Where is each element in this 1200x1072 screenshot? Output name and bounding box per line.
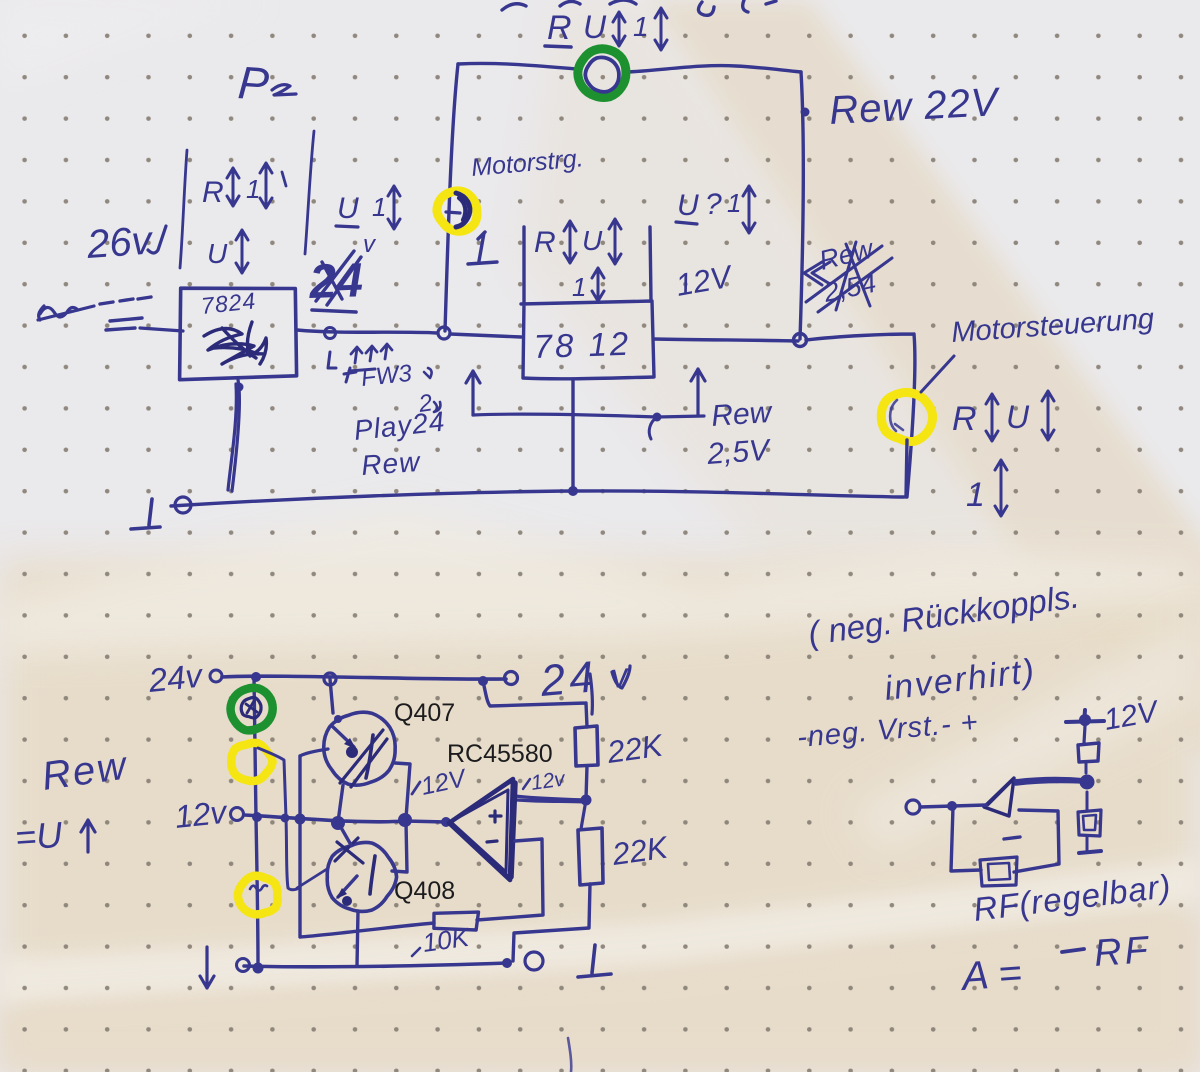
wire: left vertical 24v to 12v rail — [254, 677, 256, 818]
wire: rail down to 10K — [300, 756, 434, 937]
ground symbol below yellow circle — [468, 232, 497, 264]
svg-text:2,5V: 2,5V — [705, 434, 773, 472]
minus sign — [412, 948, 420, 956]
svg-text:1: 1 — [966, 476, 985, 514]
resistor R2 22K — [578, 828, 603, 885]
svg-text:26v: 26v — [85, 218, 155, 267]
wire: frame to motor-control stub — [806, 334, 915, 497]
label L +FW3 — [328, 352, 336, 368]
resistor R1 22K — [575, 726, 598, 766]
open node — [210, 670, 222, 682]
wire: node to R2 — [581, 800, 586, 829]
svg-text:P: P — [236, 56, 271, 110]
svg-text:U: U — [677, 189, 699, 222]
svg-text:FW3: FW3 — [360, 360, 414, 392]
node symbol inside yellow circle — [456, 193, 470, 227]
wire: bottom bus of top circuit — [171, 491, 904, 506]
svg-text:Rew: Rew — [360, 446, 422, 481]
wire: input to 7824 — [140, 328, 183, 331]
svg-text:R: R — [202, 176, 224, 209]
node open circle at frame right edge — [794, 334, 807, 347]
blue scribble inside green 2 — [241, 698, 261, 718]
svg-text:U: U — [337, 192, 359, 225]
wire: 7812 to bottom bus — [571, 379, 574, 490]
blue tick inside yellow 4 — [250, 885, 267, 890]
wire: cut-off scribble at top edge — [502, 0, 776, 15]
wire: feedback from minus input — [477, 839, 543, 920]
svg-text:=U: =U — [14, 814, 65, 858]
svg-text:1: 1 — [572, 272, 586, 302]
svg-text:?: ? — [705, 188, 722, 221]
component box 2 — [1078, 810, 1101, 836]
wire: bus to 7812 — [450, 334, 521, 337]
ground T right — [578, 945, 611, 977]
stray pen stroke bottom — [568, 1038, 571, 1072]
wire: bus 7812 to right frame edge — [654, 339, 798, 341]
svg-text:78 12: 78 12 — [533, 325, 632, 365]
wire: ground rail — [244, 963, 507, 967]
svg-text:12v: 12v — [529, 767, 567, 795]
check mark v — [612, 666, 630, 688]
wire: op-amp output — [515, 796, 586, 802]
wire: Q407 collector — [330, 679, 333, 713]
node: blue ring inside green circle — [585, 57, 619, 91]
resistor 10K — [434, 912, 479, 930]
label -RF — [1062, 949, 1084, 952]
wire: Q408 collector to node — [339, 824, 351, 845]
minus sign in loop — [1004, 837, 1020, 839]
measurement line (left) — [180, 150, 187, 268]
measurement line (mid) — [305, 131, 314, 254]
ground bar below — [1079, 851, 1101, 853]
op-amp 2 triangle — [984, 778, 1014, 816]
wire: top rail 24V — [222, 676, 506, 679]
svg-text:Q407: Q407 — [394, 699, 455, 727]
wire: Q407 emitter to node — [338, 785, 343, 822]
resistor RF — [980, 857, 1017, 886]
wire: rail to resistor R1 — [483, 681, 587, 727]
wire: bus 7824 to frame edge — [297, 330, 437, 333]
wire: Q407 base stub — [300, 749, 328, 756]
yellow highlighter circle 3 — [231, 743, 272, 781]
regulator 7824 box — [180, 288, 297, 380]
AC input symbol — [38, 306, 94, 320]
yellow highlighter circle 1 — [437, 191, 477, 231]
node open circle at frame left edge — [438, 327, 450, 339]
resistor small box 1 — [1078, 743, 1099, 762]
svg-text:Rew: Rew — [710, 396, 774, 433]
svg-text:R: R — [534, 226, 556, 259]
svg-text:Rew 22V: Rew 22V — [828, 80, 1002, 133]
regulator 7812 box — [521, 227, 654, 379]
inverted ground T at left — [131, 499, 160, 529]
wire: right edge of motor-control frame — [800, 72, 803, 339]
svg-text:1: 1 — [727, 188, 741, 218]
ground arrow left — [200, 947, 214, 988]
transistor Q407 — [324, 712, 395, 785]
wire: 7824 to bottom bus — [228, 380, 239, 491]
svg-text:1: 1 — [372, 192, 386, 222]
svg-text:v: v — [363, 231, 377, 258]
wire: op-amp 2 output — [1015, 779, 1086, 784]
input terminal — [906, 800, 920, 814]
wire: stub from yellow 3 through rail — [258, 748, 297, 890]
svg-text:24v: 24v — [146, 656, 206, 699]
wire to node — [1085, 762, 1088, 773]
green highlighter circle 2 — [231, 688, 273, 731]
wire: R2 to ground rail — [513, 884, 590, 961]
transistor Q408 — [327, 842, 396, 911]
svg-text:1: 1 — [633, 11, 649, 42]
scribble inside 7824 box — [204, 322, 266, 364]
junction blob on right edge — [801, 108, 810, 117]
svg-text:12v: 12v — [173, 794, 230, 835]
yellow highlighter circle 4 — [238, 876, 278, 915]
arrow Rew 2,5V tap — [466, 371, 480, 415]
green highlighter circle 1 — [578, 49, 626, 98]
svg-text:U: U — [207, 238, 228, 269]
wire: Q407 right to rail — [395, 763, 410, 818]
svg-text:U: U — [582, 225, 603, 256]
feedback loop rect — [951, 807, 1059, 872]
svg-text:1: 1 — [246, 174, 260, 204]
wire: Q408 right to rail — [392, 822, 407, 872]
junction dot at 7812 leg — [568, 486, 578, 496]
wire: left vertical 12v to ground — [256, 818, 258, 967]
svg-text:U: U — [1006, 399, 1030, 435]
svg-text:R: R — [547, 9, 572, 47]
op-amp RC45580 triangle — [449, 779, 513, 880]
open node 0 on bottom bus — [175, 497, 191, 513]
wire: R1 to node — [586, 766, 587, 799]
svg-text:U: U — [583, 9, 607, 45]
wire: 12v rail to op-amp input — [244, 815, 446, 822]
svg-text:RF: RF — [1093, 929, 1152, 975]
svg-text:RC45580: RC45580 — [447, 740, 553, 768]
pointer line — [921, 356, 954, 392]
wire: right leg to bottom bus — [906, 440, 907, 497]
svg-text:A =: A = — [959, 951, 1024, 999]
faint blue arc inside — [890, 400, 903, 431]
wire: node down to box 2 — [1086, 792, 1089, 810]
node open circle on bus — [325, 328, 336, 339]
power rail bar 12V — [1066, 710, 1104, 724]
wire: top edge of motor-control frame — [458, 63, 801, 72]
svg-text:R: R — [952, 400, 977, 438]
wire: Q408 base diagonal — [297, 869, 327, 888]
wire: Q408 emitter to ground — [357, 911, 358, 966]
wire: left edge of motor-control frame — [445, 64, 458, 331]
yellow highlighter circle 2 — [881, 392, 932, 441]
svg-text:Q408: Q408 — [394, 877, 455, 905]
